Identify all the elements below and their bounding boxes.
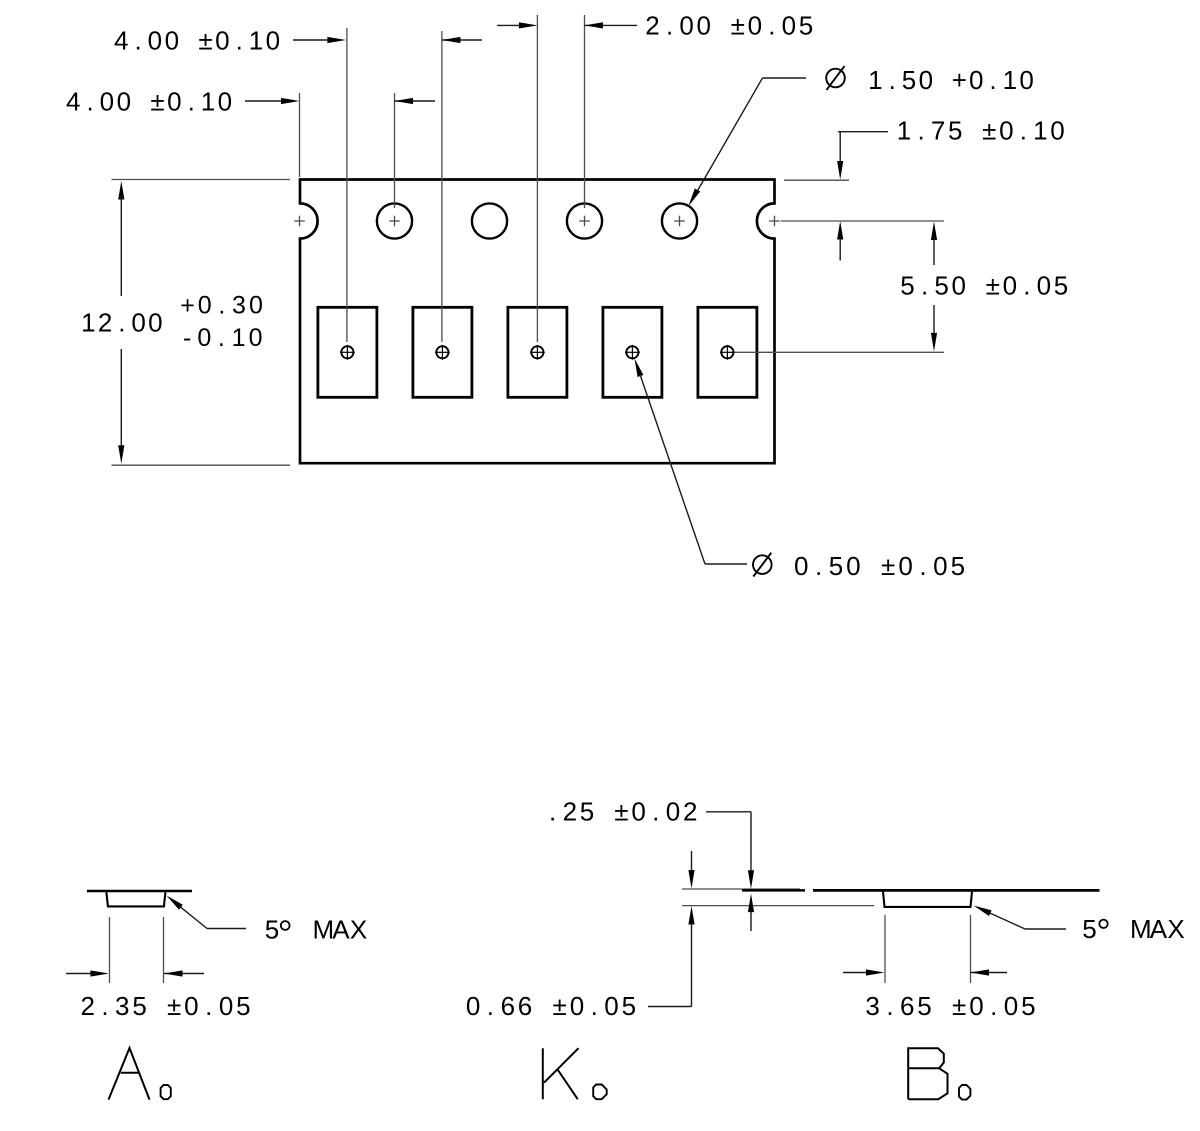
carrier tape outline [300, 180, 775, 464]
svg-text:±: ± [982, 116, 996, 146]
svg-text:.: . [218, 291, 225, 319]
svg-text:5: 5 [1054, 270, 1068, 300]
svg-text:0: 0 [951, 270, 965, 300]
svg-text:+: + [180, 291, 195, 319]
svg-text:5: 5 [829, 551, 843, 581]
svg-text:5: 5 [900, 270, 914, 300]
svg-text:.: . [917, 116, 924, 146]
svg-text:5: 5 [1021, 991, 1035, 1021]
svg-text:.: . [218, 324, 225, 352]
svg-text:.: . [652, 797, 659, 827]
svg-text:±: ± [150, 86, 164, 116]
svg-text:5: 5 [799, 10, 813, 40]
svg-text:.: . [919, 551, 926, 581]
svg-text:0: 0 [570, 991, 584, 1021]
pocket 3 center mark [530, 345, 545, 360]
dimension diameter 0.50 pocket hole leader [635, 359, 966, 581]
extension line tape bottom left [112, 464, 291, 466]
svg-text:0: 0 [165, 25, 179, 55]
section K0 pocket bottom line [682, 905, 874, 907]
svg-text:0: 0 [1050, 116, 1064, 146]
svg-text:.: . [101, 991, 108, 1021]
label B0 [908, 1048, 970, 1099]
svg-text:0: 0 [148, 307, 162, 337]
svg-text:5: 5 [580, 797, 594, 827]
hole center cross 2 [579, 216, 590, 227]
svg-text:-: - [183, 324, 191, 352]
svg-text:±: ± [198, 25, 212, 55]
svg-text:0: 0 [933, 551, 947, 581]
sprocket hole 2 [377, 203, 412, 238]
svg-text:.: . [134, 25, 141, 55]
svg-text:0: 0 [794, 551, 808, 581]
svg-text:0: 0 [604, 991, 618, 1021]
svg-text:1: 1 [232, 324, 246, 352]
section A0 pocket profile [106, 892, 165, 906]
svg-text:2: 2 [563, 797, 577, 827]
svg-text:.: . [591, 991, 598, 1021]
svg-text:.: . [487, 991, 494, 1021]
svg-text:3: 3 [865, 991, 879, 1021]
svg-text:0: 0 [898, 551, 912, 581]
section K0 top surface thin line [682, 888, 800, 890]
svg-text:5: 5 [934, 270, 948, 300]
extension line pocket 1 center [346, 28, 348, 342]
dimension 4.00 pocket pitch [114, 25, 482, 55]
svg-text:4: 4 [114, 25, 128, 55]
svg-text:5: 5 [951, 551, 965, 581]
svg-text:3: 3 [115, 991, 129, 1021]
svg-text:1: 1 [81, 307, 95, 337]
svg-text:.: . [921, 270, 928, 300]
svg-text:0: 0 [1037, 270, 1051, 300]
extension line hole 2 center [394, 93, 396, 208]
hole center cross 1 [389, 216, 400, 227]
pocket 2 [413, 307, 472, 397]
svg-text:0: 0 [748, 10, 762, 40]
svg-text:0: 0 [1003, 270, 1017, 300]
svg-text:+: + [952, 65, 967, 95]
svg-text:A: A [332, 915, 350, 945]
svg-text:.: . [989, 65, 996, 95]
svg-text:±: ± [614, 797, 628, 827]
svg-text:.: . [666, 10, 673, 40]
svg-text:5: 5 [902, 65, 916, 95]
svg-text:0: 0 [219, 991, 233, 1021]
pocket 5 [698, 307, 757, 397]
svg-text:5: 5 [265, 915, 279, 945]
svg-text:1: 1 [249, 25, 263, 55]
svg-text:A: A [1150, 914, 1168, 944]
hole center cross 3 [674, 216, 685, 227]
svg-text:5: 5 [622, 991, 636, 1021]
svg-text:0: 0 [249, 324, 263, 352]
label A0 [109, 1048, 171, 1100]
svg-text:0: 0 [167, 86, 181, 116]
svg-text:±: ± [552, 991, 566, 1021]
pocket 2 center mark [435, 345, 450, 360]
svg-text:.: . [205, 991, 212, 1021]
svg-text:.: . [990, 991, 997, 1021]
dimension 0.25 tape thickness [549, 797, 754, 932]
pocket 1 center mark [340, 345, 355, 360]
svg-text:3: 3 [232, 291, 246, 319]
svg-text:5: 5 [1082, 914, 1096, 944]
svg-text:±: ± [986, 270, 1000, 300]
svg-text:0: 0 [218, 86, 232, 116]
svg-text:.: . [889, 65, 896, 95]
svg-text:±: ± [167, 991, 181, 1021]
svg-text:0: 0 [198, 291, 212, 319]
section B0 extension lines [885, 915, 971, 983]
svg-text:0: 0 [266, 25, 280, 55]
svg-text:±: ± [881, 551, 895, 581]
svg-text:0: 0 [1019, 65, 1033, 95]
svg-text:6: 6 [518, 991, 532, 1021]
svg-text:.: . [815, 551, 822, 581]
extension line hole 1 center [299, 93, 301, 177]
svg-text:0: 0 [466, 991, 480, 1021]
svg-text:6: 6 [501, 991, 515, 1021]
extension line pocket 2 center [441, 31, 443, 342]
svg-text:0: 0 [999, 116, 1013, 146]
dimension diameter 1.50 sprocket hole leader [688, 65, 1033, 206]
svg-text:1: 1 [897, 116, 911, 146]
svg-text:0: 0 [148, 25, 162, 55]
sprocket hole 3 [472, 203, 507, 238]
svg-text:2: 2 [683, 797, 697, 827]
svg-text:1: 1 [1003, 65, 1017, 95]
section B0 dimension 3.65 [843, 969, 1036, 1021]
svg-text:.: . [549, 797, 556, 827]
svg-text:.: . [768, 10, 775, 40]
extension line tape top left [112, 179, 291, 181]
svg-text:0: 0 [117, 86, 131, 116]
svg-text:.: . [188, 86, 195, 116]
svg-text:.: . [1020, 116, 1027, 146]
dimension 0.66 pocket depth [466, 851, 695, 1021]
section A0 extension lines [110, 917, 164, 983]
extension line pocket row right [735, 351, 944, 353]
svg-text:M: M [312, 915, 334, 945]
extension line hole 4 center [584, 15, 586, 208]
section B0 5 deg leader [974, 906, 1185, 945]
section A0 5 deg leader [167, 896, 368, 945]
svg-text:0: 0 [696, 10, 710, 40]
svg-text:0: 0 [631, 797, 645, 827]
svg-text:.: . [886, 991, 893, 1021]
svg-text:0: 0 [969, 991, 983, 1021]
hole center cross 4 [769, 216, 780, 227]
pocket 3 [508, 307, 567, 397]
svg-text:5: 5 [917, 991, 931, 1021]
svg-text:6: 6 [900, 991, 914, 1021]
svg-text:0: 0 [100, 86, 114, 116]
pocket 5 center mark [720, 345, 735, 360]
section B0 tape surface line [813, 889, 1100, 892]
svg-text:0: 0 [919, 65, 933, 95]
section B0 pocket profile [883, 892, 972, 907]
svg-text:0: 0 [782, 10, 796, 40]
svg-text:.: . [1023, 270, 1030, 300]
svg-text:1: 1 [1033, 116, 1047, 146]
svg-text:.: . [86, 86, 93, 116]
svg-text:1: 1 [201, 86, 215, 116]
svg-text:1: 1 [868, 65, 882, 95]
svg-text:M: M [1130, 914, 1152, 944]
section K0 top surface thick segment [742, 889, 805, 892]
svg-text:7: 7 [931, 116, 945, 146]
svg-text:X: X [350, 915, 367, 945]
svg-text:0: 0 [197, 324, 211, 352]
svg-text:2: 2 [98, 307, 112, 337]
dimension 4.00 hole pitch [66, 86, 435, 116]
svg-text:0: 0 [131, 307, 145, 337]
svg-text:0: 0 [249, 291, 263, 319]
hole center cross 0 [294, 216, 305, 227]
svg-text:±: ± [731, 10, 745, 40]
svg-text:X: X [1167, 914, 1184, 944]
svg-text:0: 0 [1004, 991, 1018, 1021]
svg-text:2: 2 [645, 10, 659, 40]
svg-text:2: 2 [80, 991, 94, 1021]
dimension 5.50 pocket row offset [900, 222, 1068, 352]
svg-text:0: 0 [184, 991, 198, 1021]
svg-text:4: 4 [66, 86, 80, 116]
pocket 4 center mark [625, 345, 640, 360]
section A0 dimension 2.35 [66, 970, 251, 1021]
pocket 1 [318, 307, 377, 397]
section A0 tape surface line [87, 890, 192, 893]
svg-text:5: 5 [132, 991, 146, 1021]
label K0 [543, 1048, 607, 1099]
extension line hole row right [781, 220, 944, 222]
svg-text:0: 0 [969, 65, 983, 95]
sprocket hole 4 [567, 203, 602, 238]
svg-text:5: 5 [948, 116, 962, 146]
svg-text:.: . [236, 25, 243, 55]
svg-text:0: 0 [679, 10, 693, 40]
svg-text:5: 5 [236, 991, 250, 1021]
dimension 2.00 pocket to hole [497, 10, 813, 40]
svg-text:0: 0 [666, 797, 680, 827]
svg-text:0: 0 [215, 25, 229, 55]
svg-text:±: ± [952, 991, 966, 1021]
extension line pocket 3 center [536, 15, 538, 342]
svg-text:0: 0 [846, 551, 860, 581]
pocket 4 [603, 307, 662, 397]
svg-text:.: . [118, 307, 125, 337]
dimension 12.00 tape width [81, 181, 263, 464]
dimension 1.75 hole row offset [837, 116, 1065, 261]
sprocket hole 5 [662, 203, 697, 238]
extension line tape top right [784, 179, 849, 181]
